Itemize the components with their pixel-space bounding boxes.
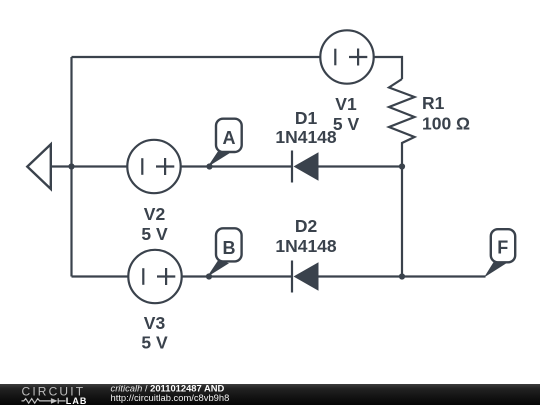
junction at ground — [68, 163, 74, 169]
svg-text:F: F — [497, 238, 508, 258]
svg-text:5 V: 5 V — [141, 333, 168, 353]
footer bar — [0, 384, 540, 405]
junction node B — [206, 273, 212, 279]
svg-text:5 V: 5 V — [141, 224, 168, 244]
wire V1 to resistor corner — [374, 57, 402, 79]
ground — [27, 144, 51, 189]
wire left vertical rail — [70, 57, 72, 277]
svg-text:B: B — [223, 238, 236, 258]
wire D1 to node — [319, 165, 403, 167]
svg-text:100 Ω: 100 Ω — [422, 114, 470, 134]
junction R1 bottom — [399, 163, 405, 169]
logo resistor-diode glyph — [22, 398, 66, 403]
svg-text:1N4148: 1N4148 — [275, 127, 337, 147]
wire ground stub — [51, 165, 72, 167]
svg-text:R1: R1 — [422, 93, 445, 113]
wire D2 to junction — [319, 275, 403, 277]
svg-text:V1: V1 — [335, 94, 357, 114]
svg-text:D1: D1 — [295, 108, 318, 128]
wire junction to node F — [402, 275, 486, 277]
node A — [208, 119, 242, 167]
svg-text:D2: D2 — [295, 216, 318, 236]
node B — [207, 228, 242, 277]
svg-text:A: A — [223, 128, 236, 148]
voltage source V3 — [128, 250, 181, 303]
svg-text:1N4148: 1N4148 — [275, 236, 337, 256]
node F — [484, 229, 515, 277]
svg-text:http://circuitlab.com/c8vb9h8: http://circuitlab.com/c8vb9h8 — [111, 392, 230, 403]
wire V2 to D1 — [181, 165, 292, 167]
svg-text:5 V: 5 V — [333, 114, 360, 134]
wire row1 ground to V2 — [72, 165, 128, 167]
svg-text:V3: V3 — [144, 313, 166, 333]
svg-text:LAB: LAB — [66, 396, 88, 405]
wire V3 to D2 — [182, 275, 292, 277]
diode D1 — [292, 151, 319, 183]
svg-text:V2: V2 — [144, 204, 166, 224]
diode D2 — [292, 261, 319, 293]
resistor R1 — [389, 79, 415, 167]
junction node A — [206, 163, 212, 169]
wire top from left corner to V1 — [72, 56, 321, 58]
wire middle vertical between junctions — [401, 167, 403, 277]
wire bottom-left to V3 — [72, 275, 129, 277]
voltage source V2 — [127, 140, 180, 193]
voltage source V1 — [320, 30, 373, 83]
junction row2 — [399, 273, 405, 279]
